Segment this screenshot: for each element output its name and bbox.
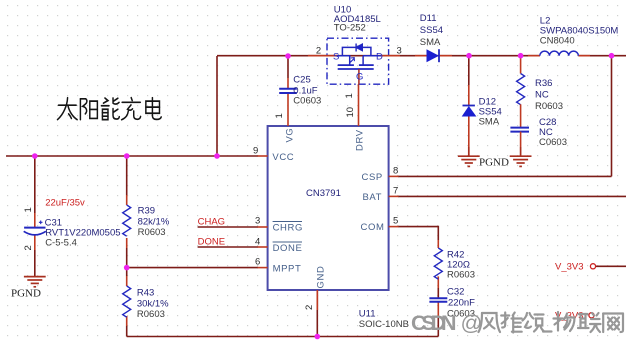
svg-text:SOIC-10NB: SOIC-10NB bbox=[359, 319, 409, 330]
capacitor C32 bbox=[429, 287, 475, 320]
svg-text:R36: R36 bbox=[535, 78, 552, 89]
svg-text:CHRG: CHRG bbox=[273, 223, 303, 234]
svg-text:4: 4 bbox=[255, 237, 260, 248]
svg-text:PGND: PGND bbox=[479, 157, 509, 169]
svg-text:2: 2 bbox=[304, 305, 315, 310]
svg-text:DONE: DONE bbox=[198, 237, 225, 248]
pin 6 MPPT bbox=[255, 257, 301, 275]
svg-text:C-5-5.4: C-5-5.4 bbox=[45, 238, 77, 249]
svg-text:DRV: DRV bbox=[355, 129, 366, 151]
wire CSP vertical right bbox=[611, 56, 613, 176]
svg-text:VG: VG bbox=[285, 128, 296, 143]
pin 10 DRV bbox=[345, 84, 366, 151]
wire C32 to bottom bbox=[437, 302, 439, 316]
svg-text:DONE: DONE bbox=[273, 243, 303, 254]
svg-text:V_3V3: V_3V3 bbox=[555, 262, 584, 273]
svg-text:1: 1 bbox=[344, 93, 355, 98]
svg-text:R39: R39 bbox=[138, 206, 155, 217]
wire C31 tap bbox=[34, 156, 36, 213]
svg-text:2: 2 bbox=[316, 46, 321, 57]
capacitor C31 electrolytic bbox=[23, 198, 121, 251]
op IC U11 CN3791 body bbox=[268, 126, 389, 290]
svg-text:S: S bbox=[333, 52, 339, 63]
port V_3V3 bottom hidden bbox=[555, 311, 594, 322]
wire R43 bottom bbox=[126, 316, 128, 326]
wire V_3V3 port bbox=[596, 265, 626, 267]
junction node GND bottom bbox=[315, 334, 321, 340]
pin 8 CSP bbox=[362, 166, 399, 184]
junction node at L2 output / CSP bbox=[609, 53, 615, 59]
svg-text:9: 9 bbox=[253, 146, 258, 157]
svg-text:BAT: BAT bbox=[363, 192, 383, 203]
junction node VCC riser bbox=[214, 153, 220, 159]
svg-text:TO-252: TO-252 bbox=[334, 23, 366, 34]
svg-text:1: 1 bbox=[274, 113, 285, 118]
pin 7 BAT bbox=[363, 186, 399, 204]
junction node at R39 tap bbox=[124, 153, 130, 159]
capacitor C25 bbox=[279, 75, 321, 107]
svg-text:2: 2 bbox=[23, 245, 34, 250]
svg-text:R0603: R0603 bbox=[535, 101, 563, 112]
junction node at C25 tap bbox=[285, 53, 291, 59]
wire CHAG stub bbox=[198, 226, 258, 228]
diode D11 SS54 bbox=[415, 13, 452, 62]
wire COM to R42 bbox=[398, 227, 438, 240]
diode D12 SS54 bbox=[462, 56, 502, 147]
pin 2 GND bbox=[304, 266, 327, 310]
junction node at C31 tap bbox=[32, 153, 38, 159]
wire CSP horizontal bbox=[398, 175, 612, 177]
wire R42-C32 bbox=[437, 276, 439, 288]
svg-text:R0603: R0603 bbox=[138, 227, 166, 238]
svg-text:22uF/35v: 22uF/35v bbox=[45, 198, 85, 209]
wire R39-R43 MPPT node bbox=[126, 238, 128, 248]
svg-text:VCC: VCC bbox=[272, 152, 294, 163]
svg-text:C25: C25 bbox=[293, 75, 310, 86]
pin 3 CHRG bbox=[255, 216, 303, 234]
pin 4 DONE bbox=[255, 237, 302, 255]
wire top horizontal bbox=[217, 55, 626, 57]
svg-text:CN3791: CN3791 bbox=[306, 188, 341, 199]
port V_3V3 bbox=[555, 262, 596, 273]
svg-text:5: 5 bbox=[393, 216, 398, 227]
svg-text:6: 6 bbox=[255, 257, 260, 268]
svg-text:3: 3 bbox=[255, 216, 260, 227]
junction node MPPT divider bbox=[124, 265, 130, 271]
junction node at R36 tap bbox=[518, 53, 524, 59]
svg-text:82k/1%: 82k/1% bbox=[138, 217, 170, 228]
svg-text:CSP: CSP bbox=[362, 172, 383, 183]
transistor U10 AOD4185L bbox=[308, 5, 402, 99]
svg-text:U11: U11 bbox=[359, 309, 376, 320]
svg-text:C32: C32 bbox=[447, 287, 464, 298]
ground PGND under C31 bbox=[24, 277, 46, 287]
ground PGND under D12 bbox=[458, 147, 480, 166]
component U11 footprint label bbox=[359, 309, 409, 331]
svg-text:220nF: 220nF bbox=[448, 298, 475, 309]
svg-text:R0603: R0603 bbox=[137, 309, 165, 320]
svg-text:CHAG: CHAG bbox=[198, 217, 225, 228]
svg-text:PGND: PGND bbox=[11, 288, 41, 300]
svg-text:COM: COM bbox=[361, 222, 385, 233]
title 太阳能充电 bbox=[57, 98, 161, 120]
resistor R39 bbox=[123, 205, 170, 238]
svg-text:MPPT: MPPT bbox=[273, 264, 302, 275]
svg-text:1: 1 bbox=[23, 207, 34, 212]
watermark CSDN bbox=[411, 311, 623, 335]
svg-text:D: D bbox=[376, 52, 383, 63]
inductor L2 bbox=[528, 16, 618, 56]
svg-text:NC: NC bbox=[535, 90, 549, 101]
pin 1 VG bbox=[274, 93, 296, 143]
svg-text:10: 10 bbox=[345, 107, 356, 118]
svg-text:GND: GND bbox=[316, 266, 327, 289]
wire C25 tap bbox=[287, 56, 289, 78]
svg-text:C0603: C0603 bbox=[539, 137, 567, 148]
ground PGND under C28 bbox=[510, 147, 532, 166]
svg-text:3: 3 bbox=[397, 46, 402, 57]
wire BAT horizontal bbox=[398, 195, 626, 197]
svg-text:C0603: C0603 bbox=[293, 96, 321, 107]
svg-text:G: G bbox=[356, 72, 363, 83]
resistor R36 bbox=[517, 56, 563, 127]
svg-text:CSDN: CSDN bbox=[411, 311, 457, 335]
pin 9 VCC bbox=[253, 146, 294, 164]
resistor R42 bbox=[434, 248, 475, 281]
wire GND pin vertical bbox=[316, 290, 318, 337]
junction node at D12 tap bbox=[466, 53, 472, 59]
wire top-left vertical bbox=[216, 56, 218, 156]
svg-text:SMA: SMA bbox=[479, 117, 500, 128]
svg-text:7: 7 bbox=[393, 186, 398, 197]
pin 5 COM bbox=[361, 216, 399, 234]
resistor R43 bbox=[123, 286, 169, 320]
svg-text:SS54: SS54 bbox=[420, 25, 443, 36]
wire VCC net horizontal bbox=[6, 155, 258, 157]
svg-text:SMA: SMA bbox=[420, 37, 441, 48]
wire MPPT horizontal bbox=[127, 267, 258, 269]
svg-text:CN8040: CN8040 bbox=[540, 36, 575, 47]
wire C31 to ground bbox=[34, 235, 36, 250]
svg-text:D11: D11 bbox=[420, 13, 437, 24]
wire DONE stub bbox=[198, 246, 258, 248]
capacitor C28 bbox=[510, 117, 567, 148]
svg-text:8: 8 bbox=[393, 166, 398, 177]
svg-text:R0603: R0603 bbox=[447, 270, 475, 281]
svg-text:R43: R43 bbox=[137, 288, 154, 299]
wire R39 top bbox=[126, 156, 128, 195]
wire bottom horizontal bbox=[127, 336, 439, 338]
svg-text:30k/1%: 30k/1% bbox=[137, 299, 169, 310]
